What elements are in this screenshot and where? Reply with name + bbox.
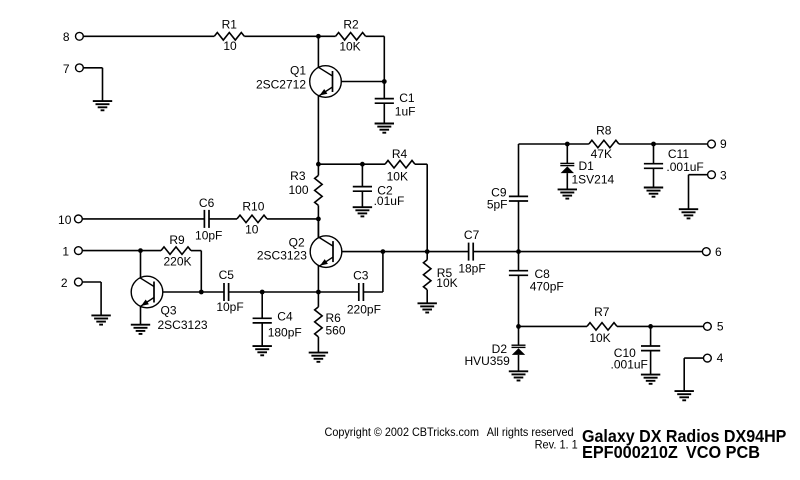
wire C7 to C8/C9 node <box>473 251 518 253</box>
svg-text:1SV214: 1SV214 <box>572 173 615 187</box>
capacitor C2 .01uF <box>353 164 404 208</box>
wire Q2 base row to C7 <box>342 251 469 253</box>
ground C1 <box>375 124 394 133</box>
wire node to pin 9 <box>654 143 708 145</box>
svg-text:Q2: Q2 <box>289 235 305 249</box>
svg-text:C1: C1 <box>399 91 415 105</box>
wire Q1 base to node <box>341 81 384 83</box>
ground pin3 <box>679 209 698 218</box>
ground C2 <box>353 207 372 216</box>
svg-text:.001uF: .001uF <box>611 358 648 372</box>
capacitor C10 .001uF <box>611 326 661 371</box>
wire Q3 collector <box>140 251 142 279</box>
resistor R7 10K <box>587 305 617 345</box>
wire pin8 to R1 <box>84 35 215 37</box>
wire top rail C9 to D1 node <box>519 143 568 145</box>
svg-text:.001uF: .001uF <box>666 160 703 174</box>
svg-text:R4: R4 <box>392 147 408 161</box>
ground D2 <box>509 371 528 380</box>
svg-text:Rev. 1. 1: Rev. 1. 1 <box>535 438 578 452</box>
capacitor C9 5pF <box>487 144 528 212</box>
wire R9 to corner down to Q3 base node <box>191 250 201 252</box>
capacitor C3 220pF <box>347 269 381 317</box>
wire pin7 to ground <box>83 67 102 69</box>
wire R2 to corner down to base node <box>366 35 385 37</box>
wire C3 up to base row <box>363 291 383 293</box>
resistor R1 10 <box>214 18 244 54</box>
wire emitter node to C3 <box>318 291 358 293</box>
svg-text:220K: 220K <box>163 255 191 269</box>
wire C6 to R10 <box>209 218 237 220</box>
ground pin4 <box>675 391 694 400</box>
node junction C3 riser on base row <box>381 249 386 254</box>
resistor R9 220K <box>161 233 192 269</box>
capacitor C4 180pF <box>253 292 302 339</box>
svg-text:10K: 10K <box>387 170 408 184</box>
svg-text:R10: R10 <box>242 200 264 214</box>
node junction R4/R5 on base row <box>425 249 430 254</box>
svg-text:5: 5 <box>717 319 724 333</box>
node base/R2/C1 junction <box>382 79 387 84</box>
resistor R8 47K <box>589 124 619 162</box>
wire C1 to ground <box>383 103 385 123</box>
svg-text:Q1: Q1 <box>290 64 306 78</box>
node junction R1/R2/Q1 collector <box>316 34 321 39</box>
ground R5 <box>418 303 437 312</box>
svg-text:1: 1 <box>62 245 69 259</box>
capacitor C5 10pF <box>216 268 243 314</box>
wire node to pin 6 <box>519 251 703 253</box>
svg-text:R7: R7 <box>594 305 610 319</box>
wire node to C1 <box>383 82 385 99</box>
ground pin7 <box>93 101 112 110</box>
resistor R5 10K <box>423 252 457 291</box>
wire Q3 emitter to ground <box>140 306 142 325</box>
ground Q3 emitter <box>131 325 150 334</box>
terminal pin 4 <box>704 351 724 365</box>
diode D1 1SV214 varactor <box>560 144 614 187</box>
svg-text:R2: R2 <box>343 17 359 31</box>
svg-text:R1: R1 <box>222 18 238 32</box>
transistor Q1 2SC2712 <box>256 64 341 98</box>
terminal pin 2 <box>61 276 82 290</box>
svg-text:18pF: 18pF <box>458 262 485 276</box>
wire pin10 to C6 <box>82 218 204 220</box>
svg-text:180pF: 180pF <box>268 325 302 339</box>
wire junction row to R4 <box>318 163 385 165</box>
svg-text:8: 8 <box>63 30 70 44</box>
svg-text:10pF: 10pF <box>195 228 222 242</box>
wire R3 to Q2 collector <box>317 205 319 237</box>
wire node to C5 <box>201 291 224 293</box>
svg-text:R9: R9 <box>169 233 185 247</box>
svg-text:7: 7 <box>63 62 70 76</box>
svg-text:6: 6 <box>715 245 722 259</box>
wire R8 to C11 node <box>619 143 654 145</box>
svg-text:5pF: 5pF <box>487 198 508 212</box>
svg-text:EPF000210Z VCO PCB: EPF000210Z VCO PCB <box>582 442 760 462</box>
svg-text:9: 9 <box>720 137 727 151</box>
ground D1 <box>558 189 577 198</box>
wire R1 to junction <box>244 35 318 37</box>
svg-text:.01uF: .01uF <box>374 194 405 208</box>
wire D2 to ground <box>518 355 520 371</box>
svg-text:R3: R3 <box>290 169 306 183</box>
capacitor C11 .001uF <box>644 144 704 174</box>
wire pin2 to ground <box>82 281 101 283</box>
ground R6 <box>309 353 328 362</box>
svg-text:10K: 10K <box>339 39 360 53</box>
terminal pin 8 <box>63 30 83 44</box>
diode D2 HVU359 varactor <box>464 326 525 367</box>
wire Q1 collector <box>317 36 319 67</box>
node junction C7/C8/C9 <box>516 249 521 254</box>
node junction R9/Q3 base/C5 <box>199 290 204 295</box>
wire Q1 emitter to junction <box>317 96 319 165</box>
node junction C5/C4 <box>260 290 265 295</box>
svg-text:2: 2 <box>61 276 68 290</box>
wire Q2 collector <box>317 219 319 238</box>
wire node to Q2 emitter node <box>262 291 318 293</box>
svg-text:560: 560 <box>326 323 346 337</box>
wire node to R7 <box>519 325 588 327</box>
wire node to R8 <box>567 143 589 145</box>
wire Q3 base to node <box>163 291 202 293</box>
svg-text:D1: D1 <box>579 159 595 173</box>
resistor R3 100 <box>288 164 322 205</box>
wire C5 to C4 node <box>229 291 263 293</box>
svg-text:C5: C5 <box>219 268 235 282</box>
capacitor C6 10pF <box>195 196 222 242</box>
svg-text:HVU359: HVU359 <box>464 354 510 368</box>
svg-text:3: 3 <box>720 168 727 182</box>
ground C4 <box>253 346 272 355</box>
node junction pin1/R9/Q3 collector <box>138 248 143 253</box>
terminal pin 6 <box>702 245 722 259</box>
svg-text:470pF: 470pF <box>530 279 564 293</box>
svg-text:10: 10 <box>245 222 259 236</box>
node junction R10/R3/Q2 <box>316 217 321 222</box>
svg-text:10pF: 10pF <box>216 300 243 314</box>
capacitor C8 470pF <box>509 252 564 294</box>
svg-text:10K: 10K <box>436 276 457 290</box>
svg-text:C11: C11 <box>668 147 689 161</box>
wire C9 to junction node <box>518 201 520 252</box>
capacitor C7 18pF <box>458 228 485 276</box>
node junction R8/C11 <box>651 142 656 147</box>
wire R5 to ground <box>426 290 428 304</box>
svg-text:R8: R8 <box>596 124 612 138</box>
svg-text:1uF: 1uF <box>395 105 416 119</box>
resistor R6 560 <box>315 292 346 337</box>
svg-text:C4: C4 <box>277 310 293 324</box>
svg-text:10: 10 <box>58 213 72 227</box>
svg-text:C7: C7 <box>464 228 480 242</box>
wire C10 to ground <box>650 351 652 375</box>
wire C2 to ground <box>361 191 363 207</box>
ground pin2 <box>91 315 110 324</box>
wire R10 to junction <box>267 218 318 220</box>
wire Q2 emitter <box>317 266 319 292</box>
wire C11 to ground <box>653 168 655 187</box>
terminal pin 10 <box>58 213 82 227</box>
wire junction to R2 <box>318 35 335 37</box>
resistor R4 10K <box>385 147 415 184</box>
wire R4 to corner down to base row <box>415 163 427 165</box>
wire C8 to R7 node <box>518 275 520 326</box>
wire pin4 to ground <box>684 357 703 359</box>
wire pin3 to ground <box>689 174 708 176</box>
node junction Q2 emitter/R6/C3 <box>316 290 321 295</box>
terminal pin 3 <box>708 168 727 182</box>
terminal pin 9 <box>708 137 727 151</box>
svg-text:10: 10 <box>223 39 237 53</box>
ground C11 <box>644 188 663 197</box>
svg-text:2SC3123: 2SC3123 <box>158 318 208 332</box>
terminal pin 7 <box>63 62 83 76</box>
node junction Q1 emitter / R3 / R4 <box>316 162 321 167</box>
wire node to pin 5 <box>651 325 704 327</box>
ground C10 <box>641 375 660 384</box>
transistor Q2 2SC3123 <box>257 235 342 267</box>
node junction D1/R8 <box>565 142 570 147</box>
node junction C2 tap <box>360 162 365 167</box>
node junction R7/C10 <box>648 324 653 329</box>
svg-text:220pF: 220pF <box>347 302 381 316</box>
svg-text:Q3: Q3 <box>161 304 177 318</box>
svg-text:10K: 10K <box>589 331 610 345</box>
wire pin1 to R9 <box>82 250 161 252</box>
terminal pin 5 <box>704 319 724 333</box>
wire D1 to ground <box>566 173 568 189</box>
node junction C8/R7/D2 <box>516 324 521 329</box>
svg-text:2SC2712: 2SC2712 <box>256 78 306 92</box>
terminal pin 1 <box>62 245 82 259</box>
svg-text:2SC3123: 2SC3123 <box>257 249 307 263</box>
capacitor C1 1uF <box>375 91 416 119</box>
wire R7 to C10 node <box>617 325 651 327</box>
transistor Q3 2SC3123 <box>131 276 208 332</box>
svg-text:100: 100 <box>288 183 308 197</box>
wire C4 to ground <box>261 323 263 346</box>
resistor R10 10 <box>237 200 267 237</box>
resistor R2 10K <box>336 17 366 53</box>
wire R6 to ground <box>317 337 319 353</box>
svg-text:4: 4 <box>717 351 724 365</box>
svg-text:C3: C3 <box>353 269 369 283</box>
svg-text:C6: C6 <box>199 196 215 210</box>
